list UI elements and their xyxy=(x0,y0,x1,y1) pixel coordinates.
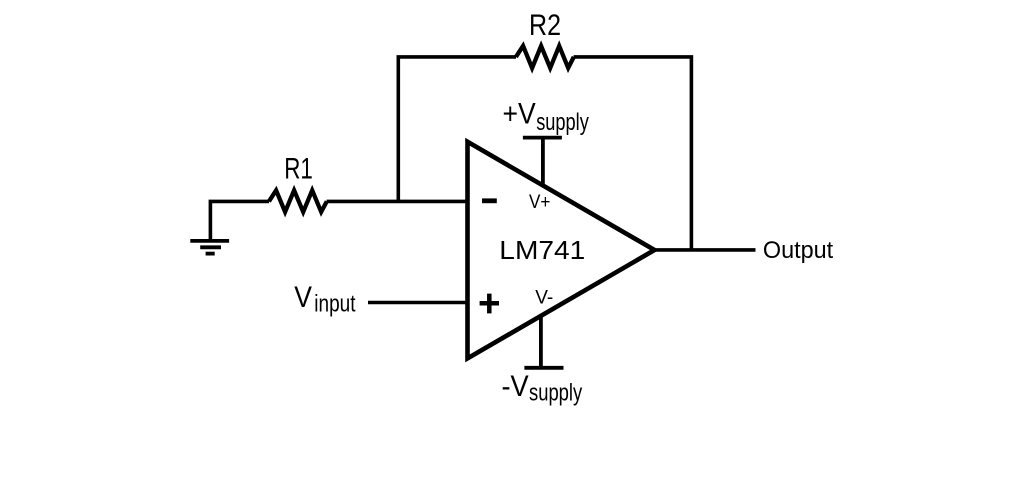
wire: +Vsupply to op-amp V+ pin xyxy=(541,138,545,187)
svg-text:-V: -V xyxy=(502,370,529,403)
wire: ground stub and inverting input segment left of R1 xyxy=(210,201,269,242)
wire: R2 to feedback right vertical down to output xyxy=(574,57,692,250)
non-inverting input plus marker xyxy=(480,294,499,314)
wire: op-amp V- pin to -Vsupply xyxy=(539,316,543,368)
svg-text:input: input xyxy=(314,290,355,317)
resistor R1 xyxy=(269,190,327,212)
wire: output xyxy=(655,248,756,252)
wire: R1 to inverting input of op-amp xyxy=(327,200,468,204)
power +Vsupply rail bar xyxy=(523,136,562,140)
svg-text:V: V xyxy=(294,281,312,314)
op-amp U1 LM741 triangle xyxy=(468,142,655,359)
inverting input minus marker xyxy=(482,198,497,203)
label Vinput xyxy=(294,281,356,317)
wire: non-inverting input xyxy=(368,301,468,305)
ground xyxy=(190,241,229,254)
svg-text:supply: supply xyxy=(536,109,589,136)
svg-text:R1: R1 xyxy=(284,153,313,186)
svg-text:Output: Output xyxy=(763,237,834,264)
resistor R2 xyxy=(516,46,574,68)
svg-text:V-: V- xyxy=(535,286,553,308)
svg-text:+V: +V xyxy=(503,97,536,130)
power -Vsupply rail bar xyxy=(524,366,563,370)
svg-text:supply: supply xyxy=(529,380,582,407)
label -Vsupply xyxy=(502,370,583,407)
svg-text:LM741: LM741 xyxy=(499,235,585,265)
svg-text:R2: R2 xyxy=(529,9,561,42)
wire: feedback left vertical + top run to R2 xyxy=(398,57,516,202)
label +Vsupply xyxy=(503,97,589,136)
svg-text:V+: V+ xyxy=(529,191,550,213)
